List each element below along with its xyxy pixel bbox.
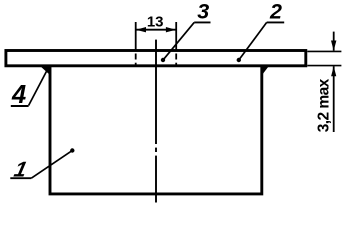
arrow up bbox=[331, 66, 336, 76]
thickness dimension extension lines bbox=[307, 51, 341, 65]
svg-text:3: 3 bbox=[197, 0, 209, 23]
callout 2 bbox=[237, 0, 285, 62]
svg-text:13: 13 bbox=[147, 13, 164, 30]
arrow down bbox=[331, 41, 336, 51]
flange plate (item 2) outline bbox=[6, 51, 306, 66]
callout 1 bbox=[10, 148, 74, 181]
body shell (item 1) outline bbox=[50, 66, 262, 194]
thickness dimension vertical line bottom shank bbox=[333, 66, 335, 132]
arrow left bbox=[136, 27, 146, 32]
svg-text:4: 4 bbox=[11, 81, 26, 109]
thickness dimension vertical line top shank bbox=[333, 32, 335, 51]
arrow right bbox=[166, 27, 176, 32]
hidden hole line left bbox=[135, 22, 137, 67]
svg-text:2: 2 bbox=[269, 0, 282, 24]
svg-text:3,2 max: 3,2 max bbox=[316, 78, 333, 132]
weld fillet left bbox=[41, 66, 51, 75]
centerline bbox=[155, 40, 157, 203]
hidden hole line right bbox=[175, 22, 177, 67]
weld fillet right bbox=[262, 66, 269, 75]
callout 4 bbox=[11, 68, 49, 109]
callout 3 bbox=[161, 0, 211, 62]
dimension 13 line bbox=[136, 29, 177, 31]
